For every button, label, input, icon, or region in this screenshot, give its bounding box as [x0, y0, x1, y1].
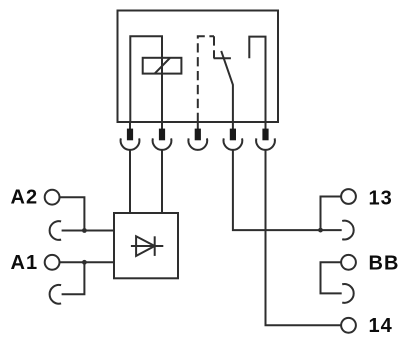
wire A2 socket to input box — [62, 230, 114, 232]
svg-text:14: 14 — [369, 315, 393, 337]
BB socket arc — [342, 284, 354, 303]
input network box — [114, 213, 178, 278]
terminal 14 circle — [341, 318, 356, 333]
NO fixed contact stub wire to pin5 — [249, 37, 265, 122]
mechanical link (dashed) from pin3 to contact — [198, 36, 214, 122]
pin 1 (plug and socket) — [121, 122, 140, 150]
wire 13 circle to junction — [321, 197, 341, 231]
wire pin5 to terminal 14 — [266, 150, 341, 325]
svg-text:A2: A2 — [11, 187, 39, 209]
moving contact arm to pin4 — [221, 51, 233, 122]
svg-text:13: 13 — [369, 188, 393, 210]
diode V1 line — [131, 245, 163, 247]
A2 socket arc — [50, 221, 62, 240]
wire pin1 to rectifier box — [129, 150, 131, 213]
junction A1 — [82, 260, 87, 265]
NC fixed contact bar — [214, 57, 231, 59]
relay module box K1 — [118, 11, 279, 123]
wire BB circle to BB socket — [321, 262, 342, 293]
terminal A2 circle — [45, 190, 60, 205]
diode V1 cathode bar — [154, 236, 156, 256]
pin 3 (plug and socket) — [188, 122, 207, 150]
wire A1 circle to input box — [60, 261, 114, 263]
13 socket arc — [342, 221, 354, 240]
wire pin4 to terminal 13 junction — [233, 150, 321, 230]
terminal 13 circle — [341, 189, 356, 204]
relay coil K1 body — [143, 58, 182, 74]
diode V1 triangle — [136, 236, 155, 256]
coil diagonal mark — [155, 58, 170, 73]
wire A2 circle to junction — [60, 197, 84, 230]
svg-text:A1: A1 — [11, 252, 39, 274]
junction A2 — [82, 228, 87, 233]
wire coil loop (pin1 up, over, down through coil to pin2) — [130, 36, 162, 122]
terminal A1 circle — [45, 255, 60, 270]
pin 4 (plug and socket) — [224, 122, 243, 150]
wire A1 socket to junction — [62, 262, 85, 294]
pin 5 (plug and socket) — [256, 122, 275, 150]
pin 2 (plug and socket) — [153, 122, 172, 150]
svg-text:BB: BB — [369, 252, 400, 274]
A1 socket arc — [50, 285, 62, 304]
wire pin2 to rectifier box — [161, 150, 163, 213]
junction 13 — [318, 228, 323, 233]
terminal BB circle — [341, 255, 356, 270]
wire junction to 13 socket — [321, 229, 342, 231]
